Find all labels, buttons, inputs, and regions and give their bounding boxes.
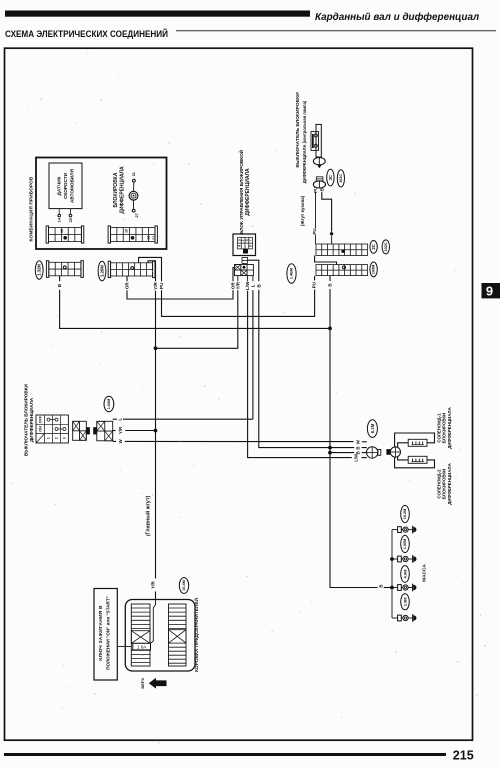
svg-text:СХЕМА ЭЛЕКТРИЧЕСКИХ СОЕДИНЕНИЙ: СХЕМА ЭЛЕКТРИЧЕСКИХ СОЕДИНЕНИЙ <box>5 28 168 40</box>
svg-text:B: B <box>355 446 360 449</box>
svg-text:ВЫКЛЮЧАТЕЛЬ БЛОКИРОВКИ: ВЫКЛЮЧАТЕЛЬ БЛОКИРОВКИ <box>23 383 28 456</box>
svg-text:4: 4 <box>237 245 241 247</box>
svg-text:B: B <box>355 451 360 454</box>
svg-text:109M: 109M <box>372 265 376 275</box>
svg-text:12: 12 <box>146 236 150 240</box>
svg-text:1.60M: 1.60M <box>107 399 111 410</box>
svg-text:ДИФФЕРЕНЦИАЛА (контрольная лам: ДИФФЕРЕНЦИАЛА (контрольная лампа) <box>302 100 307 183</box>
svg-text:КОМБИНАЦИЯ ПРИБОРОВ: КОМБИНАЦИЯ ПРИБОРОВ <box>29 176 34 241</box>
svg-text:L/W: L/W <box>353 454 358 462</box>
svg-text:СОЛЕНОИД-2: СОЛЕНОИД-2 <box>436 469 441 499</box>
svg-text:103C: 103C <box>339 174 343 183</box>
svg-text:OR: OR <box>125 282 130 290</box>
svg-text:2: 2 <box>55 437 59 439</box>
svg-text:КЛЮЧ ЗАЖИГАНИЯ В: КЛЮЧ ЗАЖИГАНИЯ В <box>98 605 104 661</box>
svg-text:Y/R: Y/R <box>153 281 158 289</box>
svg-text:9: 9 <box>486 284 493 299</box>
svg-text:7: 7 <box>249 239 253 241</box>
svg-text:(Главный жгут): (Главный жгут) <box>145 496 152 537</box>
svg-text:1.26M: 1.26M <box>100 265 105 277</box>
svg-text:PU: PU <box>159 282 164 289</box>
svg-text:27: 27 <box>135 213 139 217</box>
svg-text:215: 215 <box>453 749 474 763</box>
svg-text:PU: PU <box>312 228 317 234</box>
svg-text:СКОРОСТИ: СКОРОСТИ <box>63 172 68 199</box>
svg-text:Y/R: Y/R <box>235 281 240 289</box>
svg-text:B: B <box>328 283 333 286</box>
svg-text:1.4БМ: 1.4БМ <box>290 268 294 279</box>
svg-text:3: 3 <box>62 437 66 439</box>
svg-text:БЛОКИРОВКА: БЛОКИРОВКА <box>113 172 119 207</box>
svg-text:(Жгут кузова): (Жгут кузова) <box>300 195 305 226</box>
svg-text:ДИФФЕРЕНЦИАЛА: ДИФФЕРЕНЦИАЛА <box>447 462 452 504</box>
svg-text:102C: 102C <box>384 242 388 251</box>
svg-text:1: 1 <box>47 437 51 439</box>
svg-text:ПОЛОЖЕНИИ "ON" или "START": ПОЛОЖЕНИИ "ON" или "START" <box>106 596 111 670</box>
svg-text:АВТОМОБИЛЯ: АВТОМОБИЛЯ <box>69 168 74 203</box>
svg-text:8: 8 <box>249 245 253 247</box>
svg-text:БЛОКИРОВКИ: БЛОКИРОВКИ <box>442 413 447 444</box>
svg-text:1.05M: 1.05M <box>403 539 407 550</box>
svg-text:16: 16 <box>125 229 129 233</box>
svg-text:B: B <box>319 188 324 191</box>
svg-text:ДИФФЕРЕНЦИАЛА: ДИФФЕРЕНЦИАЛА <box>29 397 34 442</box>
svg-text:ДИФФЕРЕНЦИАЛА: ДИФФЕРЕНЦИАЛА <box>119 166 125 214</box>
svg-text:ON: ON <box>38 426 42 432</box>
svg-text:L/W: L/W <box>245 281 250 290</box>
svg-text:МАССА: МАССА <box>421 564 427 582</box>
svg-text:21: 21 <box>132 172 136 176</box>
svg-text:B: B <box>378 584 383 587</box>
svg-text:БЛОК УПРАВЛЕНИЯ БЛОКИРОВКОЙ: БЛОК УПРАВЛЕНИЯ БЛОКИРОВКОЙ <box>237 149 244 234</box>
svg-text:Карданный вал и дифференциал: Карданный вал и дифференциал <box>315 12 479 23</box>
svg-text:16.2M: 16.2M <box>403 509 407 520</box>
svg-text:Y/R: Y/R <box>150 580 155 588</box>
svg-text:25: 25 <box>69 218 73 222</box>
svg-text:БЛОКИРОВКИ: БЛОКИРОВКИ <box>442 469 447 500</box>
svg-text:1.9M: 1.9M <box>403 597 408 607</box>
svg-text:ДИФФЕРЕНЦИАЛА: ДИФФЕРЕНЦИАЛА <box>245 168 251 216</box>
svg-text:L: L <box>118 418 123 421</box>
svg-text:ДИФФЕРЕНЦИАЛА: ДИФФЕРЕНЦИАЛА <box>447 406 452 448</box>
svg-text:Y/R: Y/R <box>118 426 123 434</box>
svg-text:4.9M: 4.9M <box>403 569 408 579</box>
svg-text:OFF: OFF <box>38 415 42 423</box>
svg-text:3C: 3C <box>328 175 333 180</box>
svg-text:21: 21 <box>152 236 156 240</box>
svg-text:L: L <box>250 284 255 287</box>
svg-text:6.1M: 6.1M <box>370 423 375 433</box>
svg-text:СОЛЕНОИД-1: СОЛЕНОИД-1 <box>436 413 441 443</box>
svg-text:PU: PU <box>311 281 316 288</box>
svg-text:16.4M: 16.4M <box>182 580 186 591</box>
svg-text:1 0A: 1 0A <box>137 645 147 650</box>
svg-text:ВЫКЛЮЧАТЕЛЬ БЛОКИРОВКИ: ВЫКЛЮЧАТЕЛЬ БЛОКИРОВКИ <box>295 92 301 168</box>
svg-text:ДАТЧИК: ДАТЧИК <box>57 176 62 195</box>
svg-text:16: 16 <box>60 229 64 233</box>
svg-text:2C: 2C <box>371 244 376 249</box>
svg-text:ВЕРХ: ВЕРХ <box>140 678 145 689</box>
svg-text:1.32M: 1.32M <box>37 264 42 276</box>
svg-text:PU: PU <box>313 187 318 193</box>
